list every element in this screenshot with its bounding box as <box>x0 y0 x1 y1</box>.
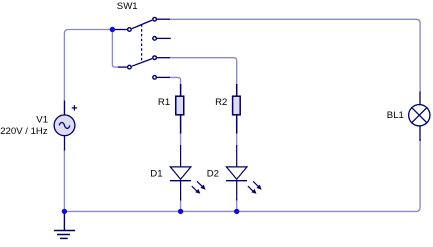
wire: bottom rail from ground to lamp BL1 <box>64 139 420 211</box>
pin: D2 anode <box>236 145 238 167</box>
svg-text:R2: R2 <box>215 97 227 108</box>
light arrow 1 <box>197 181 202 186</box>
wire: D2 cathode down to bottom rail <box>236 199 238 211</box>
wire: R2 bottom to D2 top <box>236 132 238 146</box>
resistor R2 <box>233 84 241 134</box>
node: switch input junction <box>110 27 115 32</box>
light arrow 1 <box>253 181 258 186</box>
pin: D1 anode <box>180 145 182 167</box>
svg-text:R1: R1 <box>158 97 170 108</box>
cathode bar <box>170 180 191 182</box>
pin: throw 3 stub <box>157 57 170 59</box>
pin: V1 top <box>64 101 66 115</box>
svg-text:SW1: SW1 <box>117 1 138 12</box>
pin: pole 2 stub <box>118 66 127 68</box>
lamp BL1 <box>409 92 430 142</box>
svg-text:D2: D2 <box>207 169 219 180</box>
wire: top rail from throw 1 to lamp BL1 <box>170 19 421 92</box>
wire: V1 bottom down to ground node <box>63 149 65 211</box>
LED D1 <box>170 145 206 201</box>
lever: pole 2 to throw 3 <box>132 59 152 67</box>
svg-text:BL1: BL1 <box>387 110 404 121</box>
contact circle: throw 1 <box>153 17 157 21</box>
mechanical link (dashed) <box>141 24 143 62</box>
pin: BL1 bottom <box>419 126 421 141</box>
node: D1 to bottom rail <box>178 209 183 214</box>
pin: junction to pole 1 <box>112 29 127 31</box>
wire: D1 cathode down to bottom rail <box>180 199 182 211</box>
pin: throw 4 stub <box>157 76 170 78</box>
pin: V1 bottom <box>64 136 66 151</box>
triangle <box>226 167 247 179</box>
sine wave <box>59 122 70 128</box>
cathode bar <box>226 180 247 182</box>
X stroke 1 <box>411 107 427 123</box>
lever: pole 1 to throw 1 <box>132 20 152 29</box>
triangle <box>170 167 191 179</box>
pin: throw 1 stub <box>157 18 170 20</box>
light arrow 2 <box>192 186 197 191</box>
pin: D1 cathode <box>180 181 182 201</box>
pin: D2 cathode <box>236 181 238 201</box>
body circle <box>409 105 430 126</box>
X stroke 2 <box>411 107 427 123</box>
contact circle: pole 1 <box>128 28 132 32</box>
svg-text:220V / 1Hz: 220V / 1Hz <box>0 126 48 137</box>
pin: throw 2 stub (unconnected) <box>157 37 171 39</box>
contact circle: pole 2 <box>128 65 132 69</box>
contact circle: throw 3 <box>153 56 157 60</box>
wire: V1 top up and right to switch junction <box>64 30 110 115</box>
wire: junction down and right to pole 2 <box>112 31 119 67</box>
pin: BL1 top <box>419 92 421 105</box>
body circle <box>54 115 75 136</box>
polarity plus sign <box>72 105 77 110</box>
light arrow 2 <box>248 186 253 191</box>
LED D2 <box>226 145 262 201</box>
svg-text:D1: D1 <box>150 169 162 180</box>
AC source V1 <box>54 101 77 151</box>
wire: R1 bottom to D1 top <box>180 132 182 146</box>
contact circle: throw 2 <box>153 37 157 41</box>
node: ground junction <box>62 209 67 214</box>
switch SW1 <box>112 17 170 79</box>
contact circle: throw 4 <box>153 76 157 80</box>
ground symbol <box>54 211 75 238</box>
svg-text:V1: V1 <box>36 114 48 125</box>
resistor R1 <box>176 84 184 134</box>
node: D2 to bottom rail <box>234 209 239 214</box>
wire: throw 3 right and down to R2 <box>170 58 237 89</box>
wire: throw 4 right and down to R1 <box>170 77 181 89</box>
